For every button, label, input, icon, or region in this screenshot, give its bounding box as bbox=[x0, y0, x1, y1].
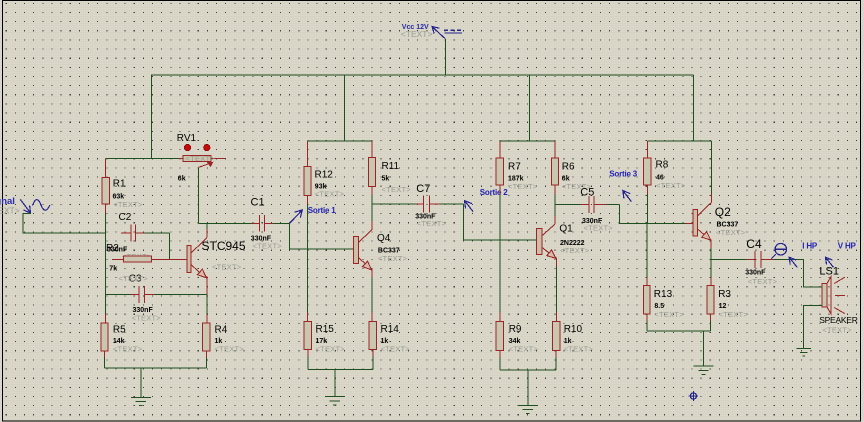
potentiometer RV1 bbox=[179, 144, 225, 167]
svg-text:R15: R15 bbox=[316, 324, 335, 335]
label SPEAKER bbox=[819, 315, 858, 325]
current probe bbox=[772, 243, 787, 258]
resistor R10 bbox=[553, 321, 560, 370]
svg-text:<TEXT>: <TEXT> bbox=[113, 344, 143, 353]
svg-text:7k: 7k bbox=[109, 265, 117, 272]
label <TEXT> Q1 bbox=[560, 246, 590, 255]
label R11 bbox=[382, 161, 400, 172]
wire C4 out bbox=[774, 260, 822, 287]
svg-text:<TEXT>: <TEXT> bbox=[382, 185, 412, 194]
label <TEXT> C5 bbox=[584, 223, 614, 232]
svg-text:<TEXT>: <TEXT> bbox=[719, 310, 749, 319]
label <TEXT> C3 value bbox=[132, 313, 162, 322]
label <TEXT> C1 bbox=[253, 241, 283, 250]
svg-text:I HP: I HP bbox=[802, 242, 818, 251]
label 1k R14 bbox=[381, 338, 389, 345]
label <TEXT> R5 bbox=[113, 344, 143, 353]
capacitor C5 bbox=[581, 196, 607, 213]
label C1 bbox=[251, 196, 265, 208]
wire C7 to Q1 base bbox=[463, 204, 536, 240]
wire top power bus bbox=[151, 74, 693, 76]
wire R13-R3 bottom bbox=[647, 330, 711, 332]
label BC337 Q4 bbox=[378, 248, 400, 255]
label C5 bbox=[580, 186, 594, 198]
svg-text:C1: C1 bbox=[251, 196, 265, 208]
label RV1 bbox=[177, 133, 197, 144]
label Q4 bbox=[377, 233, 391, 244]
label R5 bbox=[113, 324, 126, 335]
wire bus drop to stage3 bbox=[529, 75, 531, 141]
wire Q4 emitter down bbox=[371, 269, 373, 321]
label 7k R2 bbox=[109, 265, 117, 272]
svg-text:R10: R10 bbox=[564, 324, 583, 335]
svg-text:<TEXT>: <TEXT> bbox=[508, 182, 538, 191]
label <TEXT> Q3 bbox=[212, 263, 242, 272]
svg-text:<TEXT>: <TEXT> bbox=[215, 344, 245, 353]
label R15 bbox=[316, 324, 335, 335]
transistor Q3 STC945 bbox=[187, 238, 207, 278]
probe arrow V HP bbox=[826, 257, 834, 267]
label <TEXT> R9 bbox=[509, 345, 539, 354]
label 46 R8 bbox=[656, 175, 664, 182]
wire Q3 collector up bbox=[206, 223, 208, 237]
label R12 bbox=[315, 169, 334, 180]
label <TEXT> C4 bbox=[748, 277, 778, 286]
svg-text:STC945: STC945 bbox=[202, 239, 246, 253]
svg-text:Sortie 3: Sortie 3 bbox=[609, 169, 637, 178]
ground stage3 bbox=[518, 370, 538, 414]
label C7 bbox=[416, 183, 430, 195]
svg-text:<TEXT>: <TEXT> bbox=[401, 29, 433, 39]
label R7 bbox=[508, 162, 521, 173]
label <TEXT> R11 bbox=[382, 185, 412, 194]
probe arrow Sortie 2 bbox=[465, 201, 474, 212]
label 34k bbox=[509, 338, 521, 345]
svg-text:C4: C4 bbox=[746, 237, 762, 251]
wire Q3 emitter down bbox=[206, 277, 208, 323]
label 1k R4 bbox=[215, 338, 223, 345]
label I HP bbox=[802, 242, 818, 251]
wire bus drop to left stage bbox=[150, 74, 152, 158]
svg-text:C5: C5 bbox=[580, 186, 594, 198]
wire C1 out bbox=[273, 222, 290, 224]
wire R6 to collector bbox=[554, 205, 556, 225]
svg-text:Sortie 2: Sortie 2 bbox=[480, 188, 508, 197]
wire stage2 feeder bbox=[308, 140, 372, 142]
resistor R14 bbox=[369, 321, 376, 369]
svg-text:<TEXT>: <TEXT> bbox=[212, 263, 242, 272]
label <TEXT> R14 bbox=[381, 344, 411, 353]
probe arrow I HP bbox=[789, 257, 797, 267]
label R1 bbox=[113, 179, 126, 190]
svg-text:<TEXT>: <TEXT> bbox=[564, 345, 594, 354]
label <TEXT> R8 bbox=[656, 181, 686, 190]
label 1k R10 bbox=[564, 338, 572, 345]
label 17k bbox=[316, 338, 328, 345]
wire Q2 emitter down bbox=[710, 239, 712, 285]
wire C7 out bbox=[440, 203, 464, 205]
wire signal stub bbox=[23, 214, 106, 234]
label R8 bbox=[656, 160, 669, 171]
Vcc power terminal symbol bbox=[432, 27, 463, 39]
wire C5 out bbox=[606, 204, 619, 206]
wire C2 to base row bbox=[169, 233, 171, 260]
svg-text:<TEXT>: <TEXT> bbox=[253, 241, 283, 250]
probe arrow Sortie 3 bbox=[623, 191, 632, 202]
svg-text:<TEXT>: <TEXT> bbox=[381, 344, 411, 353]
ground stage2 bbox=[325, 369, 345, 405]
label <TEXT> C3 (overlap) bbox=[119, 274, 149, 283]
wire bus drop to stage2 bbox=[344, 75, 346, 141]
label <TEXT> R6 bbox=[562, 182, 592, 191]
label 63k bbox=[113, 193, 125, 200]
label <TEXT> R10 bbox=[564, 345, 594, 354]
wire Q2 collector up bbox=[711, 141, 713, 202]
svg-text:<TEXT>: <TEXT> bbox=[748, 277, 778, 286]
label <TEXT> R1 bbox=[113, 200, 143, 209]
resistor R7 bbox=[496, 141, 503, 185]
svg-text:Q4: Q4 bbox=[377, 233, 391, 244]
resistor R15 bbox=[304, 321, 311, 369]
label <TEXT> LS1 bbox=[822, 325, 852, 334]
wire C3 right to emitter column bbox=[155, 294, 207, 296]
label 6k R6 bbox=[562, 176, 570, 183]
svg-text:<TEXT>: <TEXT> bbox=[584, 223, 614, 232]
svg-text:V HP: V HP bbox=[838, 242, 857, 251]
wire collector node to C1 bbox=[199, 222, 252, 224]
signal input generator symbol bbox=[20, 199, 50, 213]
ground left stage bbox=[131, 368, 151, 406]
label 330nF C1 bbox=[251, 235, 272, 242]
wire stage3 feeder bbox=[500, 140, 555, 142]
label Sortie 3 bbox=[609, 169, 637, 178]
svg-text:R13: R13 bbox=[654, 289, 673, 300]
label signal bbox=[0, 196, 15, 207]
svg-text:R12: R12 bbox=[315, 169, 334, 180]
wire to C5 bbox=[555, 204, 581, 206]
label <TEXT> R12 bbox=[315, 190, 345, 199]
capacitor C2 bbox=[121, 225, 145, 242]
transistor Q2 bbox=[686, 202, 712, 240]
label R6 bbox=[562, 162, 575, 173]
svg-text:<TEXT>: <TEXT> bbox=[654, 310, 684, 319]
svg-text:R9: R9 bbox=[509, 324, 522, 335]
svg-text:R7: R7 bbox=[508, 162, 521, 173]
wire C3 left bbox=[106, 294, 131, 296]
label R14 bbox=[381, 324, 400, 335]
wire C2 out bbox=[145, 232, 170, 234]
svg-text:<TEXT>: <TEXT> bbox=[316, 344, 346, 353]
wire R5-R4 bottom bbox=[105, 367, 207, 369]
label <TEXT> R15 bbox=[316, 344, 346, 353]
wire R9-R10 bottom bbox=[500, 369, 556, 371]
wire speaker bottom bbox=[804, 306, 822, 349]
label LS1 bbox=[819, 266, 839, 278]
label 330nF C3 bbox=[133, 307, 154, 314]
label Q1 bbox=[559, 224, 573, 235]
svg-text:SPEAKER: SPEAKER bbox=[819, 315, 858, 325]
resistor R11 bbox=[368, 141, 375, 204]
svg-text:<TEXT>: <TEXT> bbox=[417, 219, 447, 228]
label BC337 Q2 bbox=[717, 222, 739, 229]
label <TEXT> under Vcc bbox=[401, 29, 433, 39]
label 2N2222 bbox=[560, 240, 585, 247]
label 187k bbox=[508, 176, 524, 183]
origin marker bbox=[689, 391, 699, 401]
capacitor C3 bbox=[131, 286, 155, 303]
svg-text:<TEXT>: <TEXT> bbox=[113, 200, 143, 209]
svg-text:R8: R8 bbox=[656, 160, 669, 171]
label 8.5 bbox=[654, 303, 664, 310]
svg-text:R3: R3 bbox=[718, 289, 731, 300]
capacitor C1 bbox=[251, 215, 272, 232]
svg-text:R1: R1 bbox=[113, 179, 126, 190]
label <TEXT> R4 bbox=[215, 344, 245, 353]
wire bus drop to stage4 bbox=[693, 75, 695, 141]
label Sortie 1 bbox=[308, 206, 336, 215]
svg-text:Q1: Q1 bbox=[559, 224, 573, 235]
speaker LS1 bbox=[822, 277, 845, 314]
svg-text:LS1: LS1 bbox=[819, 266, 839, 278]
label Sortie 2 bbox=[480, 188, 508, 197]
resistor R5 bbox=[101, 323, 108, 368]
wire R11 to collector bbox=[371, 204, 373, 230]
svg-text:R6: R6 bbox=[562, 162, 575, 173]
label Vcc 12V bbox=[402, 24, 429, 31]
wire R15-R14 bottom bbox=[308, 368, 373, 370]
label 330nF C4 bbox=[745, 270, 766, 277]
capacitor C4 bbox=[747, 251, 774, 268]
probe arrow Sortie 1 bbox=[290, 210, 302, 223]
label 330nF C7 bbox=[415, 214, 436, 221]
svg-text:R14: R14 bbox=[381, 324, 400, 335]
resistor R4 bbox=[203, 323, 210, 368]
label R13 bbox=[654, 289, 673, 300]
wire R7 to R9 column bbox=[499, 185, 501, 321]
wire left column bbox=[105, 233, 107, 323]
svg-text:330nF: 330nF bbox=[745, 270, 766, 277]
label 5k bbox=[382, 175, 390, 182]
label 93k bbox=[315, 183, 327, 190]
svg-text:<TEXT>: <TEXT> bbox=[0, 206, 20, 216]
svg-text:C2: C2 bbox=[119, 212, 132, 223]
ground speaker bbox=[797, 349, 811, 356]
resistor R6 bbox=[551, 141, 558, 205]
svg-text:<TEXT>: <TEXT> bbox=[132, 313, 162, 322]
svg-text:<TEXT>: <TEXT> bbox=[509, 345, 539, 354]
svg-text:R4: R4 bbox=[215, 324, 228, 335]
label <TEXT> Q4 bbox=[378, 254, 408, 263]
wire R12 to R15 column bbox=[307, 195, 309, 321]
wire Vcc drop bbox=[444, 38, 446, 75]
svg-text:Sortie 1: Sortie 1 bbox=[308, 206, 336, 215]
label <TEXT> C7 bbox=[417, 219, 447, 228]
svg-text:C7: C7 bbox=[416, 183, 430, 195]
svg-text:<TEXT>: <TEXT> bbox=[716, 228, 746, 237]
svg-text:<TEXT>: <TEXT> bbox=[822, 325, 852, 334]
label C4 bbox=[746, 237, 762, 251]
svg-text:<TEXT>: <TEXT> bbox=[656, 181, 686, 190]
label <TEXT> on RV1 body bbox=[186, 154, 216, 163]
label <TEXT> Q2 bbox=[716, 228, 746, 237]
resistor R9 bbox=[496, 321, 503, 370]
resistor R1 bbox=[102, 158, 109, 233]
label 12 R3 bbox=[719, 303, 727, 310]
svg-text:RV1: RV1 bbox=[177, 133, 197, 144]
resistor R2 bbox=[112, 256, 187, 262]
label R9 bbox=[509, 324, 522, 335]
svg-text:Q2: Q2 bbox=[715, 205, 731, 219]
wire to C7 bbox=[372, 203, 416, 205]
svg-text:<TEXT>: <TEXT> bbox=[119, 274, 149, 283]
label Q2 bbox=[715, 205, 731, 219]
svg-text:<TEXT>: <TEXT> bbox=[186, 154, 216, 163]
label C2 bbox=[119, 212, 132, 223]
label 14k bbox=[113, 338, 125, 345]
label 330nF C2 (overlapping) bbox=[107, 247, 128, 254]
svg-text:<TEXT>: <TEXT> bbox=[560, 246, 590, 255]
svg-text:R5: R5 bbox=[113, 324, 126, 335]
transistor Q4 bbox=[353, 230, 372, 270]
label <TEXT> overlapping R2 box bbox=[122, 252, 152, 261]
svg-text:<TEXT>: <TEXT> bbox=[378, 254, 408, 263]
svg-text:6k: 6k bbox=[178, 176, 186, 183]
resistor R3 bbox=[707, 286, 714, 332]
label <TEXT> R13 bbox=[654, 310, 684, 319]
label 330nF C5 bbox=[582, 218, 603, 225]
label V HP bbox=[838, 242, 857, 251]
label 6k RV1 bbox=[178, 176, 186, 183]
label C3 ref bbox=[129, 273, 142, 284]
label R4 bbox=[215, 324, 228, 335]
svg-text:5k: 5k bbox=[382, 175, 390, 182]
label <TEXT> signal bbox=[0, 206, 20, 216]
svg-text:<TEXT>: <TEXT> bbox=[315, 190, 345, 199]
wire R8 to R13 bbox=[646, 224, 648, 286]
capacitor C7 bbox=[416, 196, 440, 213]
label R3 bbox=[718, 289, 731, 300]
wire C1 to Q4 base bbox=[289, 223, 353, 249]
ground stage4 bbox=[694, 331, 714, 374]
label R2 ref (overlapping) bbox=[106, 243, 119, 254]
label <TEXT> R3 bbox=[719, 310, 749, 319]
wire emitter to C4 bbox=[711, 259, 746, 261]
resistor R12 bbox=[304, 141, 311, 195]
transistor Q1 bbox=[536, 224, 556, 258]
wire Q1 emitter down bbox=[555, 258, 557, 322]
wire C5 to Q2 base bbox=[620, 205, 686, 224]
label <TEXT> R7 bbox=[508, 182, 538, 191]
wire R1 top feed bbox=[106, 157, 180, 159]
wire RV1 wiper drop bbox=[198, 167, 200, 223]
label R10 bbox=[564, 324, 583, 335]
svg-text:R11: R11 bbox=[382, 161, 400, 172]
wire stage4 feeder bbox=[647, 140, 711, 142]
resistor R8 bbox=[644, 141, 651, 224]
label STC945 bbox=[202, 239, 246, 253]
resistor R13 bbox=[644, 286, 651, 332]
